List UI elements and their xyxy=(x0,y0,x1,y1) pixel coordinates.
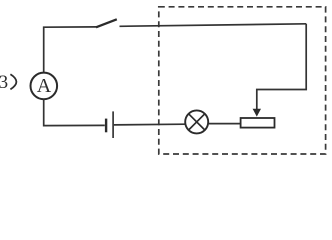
svg-text:A: A xyxy=(37,75,52,97)
battery positive plate (long) xyxy=(112,111,114,138)
wire: right side down, left, down to rheostat slider xyxy=(257,24,306,110)
battery negative plate (short) xyxy=(105,119,107,133)
ammeter A xyxy=(31,73,58,100)
wire: switch to top-right corner xyxy=(120,24,307,27)
wire: ammeter top to switch pivot xyxy=(44,27,97,73)
svg-text:3: 3 xyxy=(0,72,8,93)
lamp L xyxy=(185,110,208,133)
switch S (open blade) xyxy=(96,19,117,27)
wire: ammeter bottom to battery xyxy=(44,99,105,125)
wire: lamp to rheostat xyxy=(209,123,241,125)
dashed box xyxy=(159,7,326,154)
arrowhead onto rheostat xyxy=(253,109,261,117)
rheostat R (resistor body) xyxy=(241,118,275,128)
wire: battery to lamp xyxy=(114,123,185,126)
